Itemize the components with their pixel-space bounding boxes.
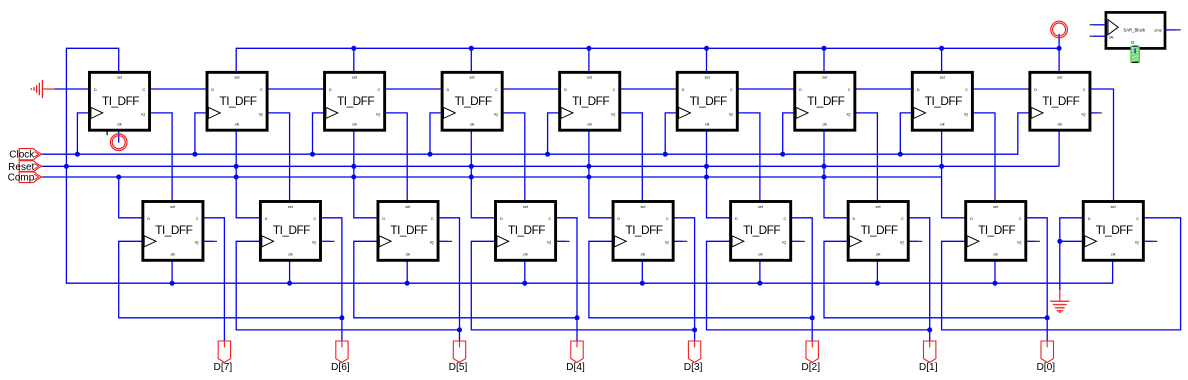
svg-text:C: C [784,217,787,221]
svg-text:IQ: IQ [1017,241,1021,245]
svg-text:IQ: IQ [547,241,551,245]
wire: U13 clk triangle track to D[3] net [471,241,694,330]
wire: U16 IQ stub [908,240,918,242]
wire: U10 C output to pin D[7] [203,218,225,341]
svg-text:C: C [495,88,498,92]
svg-text:D: D [1034,88,1037,92]
U1 TI_DFF flip-flop [89,72,149,130]
global net circle symbol at U1 clk-bar [110,134,127,151]
U3 TI_DFF flip-flop [325,72,385,130]
svg-text:TI_DFF: TI_DFF [572,94,609,108]
svg-text:C: C [901,217,904,221]
wire: U17 IQ stub [1026,240,1036,242]
svg-text:D: D [799,88,802,92]
pin-end tick U14 IQ [683,240,687,242]
svg-text:C: C [613,88,616,92]
svg-text:D: D [735,217,738,221]
svg-text:TI_DFF: TI_DFF [508,223,545,237]
wire: U12 clk-bar pin to reset bus [406,260,408,284]
svg-text:IQ: IQ [611,112,615,116]
wire: U13 clk-bar pin to reset bus [524,260,526,284]
wire: U5 clk triangle to Clock rail [548,113,559,154]
junction dots on Comp rail [116,175,826,180]
wire: U11 clk-bar pin to reset bus [289,260,291,284]
svg-text:clk: clk [993,252,998,256]
black tick marker near U1 clk [106,124,108,135]
svg-text:D: D [853,217,856,221]
wire: U8 set pin drop [941,48,943,72]
wire: Clock rail to U9 clk triangle [42,113,1029,154]
svg-text:TI_DFF: TI_DFF [337,94,374,108]
svg-text:D[1]: D[1] [919,362,938,373]
svg-text:clk: clk [587,122,592,126]
U12 TI_DFF flip-flop [378,202,438,261]
svg-text:IQ: IQ [430,241,434,245]
wire: U6 clk triangle to Clock rail [665,113,676,154]
svg-text:D: D [500,217,503,221]
wire: U8 C to U9 D [972,88,1029,90]
global net circle symbol above U9 set [1051,21,1068,38]
svg-text:C: C [965,88,968,92]
svg-text:clk: clk [523,252,528,256]
svg-text:D: D [447,88,450,92]
wire: U5 set pin drop [588,48,590,72]
output pin D[3] [684,341,703,373]
output pin D[2] [801,341,820,373]
svg-text:D: D [682,88,685,92]
svg-text:D[2]: D[2] [801,362,820,373]
wire: U5 clk-bar / Comp feed down to U14 D [589,130,612,218]
U11 TI_DFF flip-flop [260,202,320,261]
U16 TI_DFF flip-flop [848,202,908,261]
wire: U1 IQ down to U10 set [149,113,172,201]
svg-text:TI_DFF: TI_DFF [978,223,1015,237]
svg-text:D[6]: D[6] [331,362,350,373]
wire: U7 clk triangle to Clock rail [783,113,794,154]
wire: U1 clk-bar pin into global circle symbol [118,130,120,142]
wire: U9 set pin drop [1058,48,1060,72]
svg-text:TI_DFF: TI_DFF [155,223,192,237]
wire: U18 IQ stub [1143,240,1153,242]
wire: U2 clk-bar / Comp feed down to U11 D [236,130,259,218]
svg-text:clk: clk [822,122,827,126]
wire: SAR_Block clk-in stub upper [1093,24,1106,26]
SAR_Block D bus stub (wide green wire) [1131,46,1139,63]
svg-text:TI_DFF: TI_DFF [743,223,780,237]
svg-text:clk: clk [117,122,122,126]
svg-text:C: C [666,217,669,221]
wire: U14 IQ stub [673,240,683,242]
input pin Reset [8,161,42,173]
wire: U13 C output to pin D[4] [555,218,577,341]
wire: gnd symbol to U1 D input [54,88,88,90]
wire: U11 C output to pin D[6] [320,218,342,341]
svg-text:TI_DFF: TI_DFF [690,94,727,108]
wire: U15 C output to pin D[2] [790,218,812,341]
svg-text:D: D [617,217,620,221]
pin-end tick U12 IQ [448,240,452,242]
U10 TI_DFF flip-flop [143,202,203,261]
wire: U12 C output to pin D[5] [438,218,460,341]
svg-text:IQ: IQ [259,112,263,116]
wire: U12 IQ stub [438,240,448,242]
wire: U9 C down to U18 set [1090,89,1114,201]
junction dots on clk track taps [339,315,1049,332]
svg-text:C: C [313,217,316,221]
output pin D[6] [331,341,350,373]
svg-text:D[5]: D[5] [449,362,468,373]
svg-text:D[4]: D[4] [566,362,585,373]
svg-text:C: C [431,217,434,221]
input pin Comp [8,171,42,183]
svg-text:clk: clk [1109,35,1114,40]
svg-text:TI_DFF: TI_DFF [102,94,139,108]
U6 TI_DFF flip-flop [677,72,737,130]
svg-text:clk: clk [406,252,411,256]
svg-text:D: D [265,217,268,221]
junction dots on bottom reset bus [170,281,998,286]
svg-text:clk: clk [758,252,763,256]
svg-text:C: C [548,217,551,221]
wire: U11 clk triangle track to D[5] net [236,241,459,330]
svg-text:D: D [94,88,97,92]
svg-text:D: D [211,88,214,92]
svg-text:clk: clk [470,122,475,126]
wire: U6 IQ down to U15 set [737,113,760,201]
wire: U1 clk triangle to Clock rail [77,113,88,154]
ground symbol (bottom right, U18 clk net) [1050,290,1069,312]
wire: U6 clk-bar / Comp feed down to U15 D [707,130,730,218]
svg-text:C: C [848,88,851,92]
wire: U4 clk-bar / Comp feed down to U13 D [471,130,494,218]
U15 TI_DFF flip-flop [731,202,791,261]
svg-text:D: D [1088,217,1091,221]
svg-text:clk: clk [940,122,945,126]
svg-text:TI_DFF: TI_DFF [273,223,310,237]
wire: Comp rail [42,176,942,178]
svg-text:C: C [730,88,733,92]
wire: U16 C output to pin D[1] [908,218,930,341]
wire: U2 IQ down to U11 set [267,113,290,201]
svg-text:TI_DFF: TI_DFF [220,94,257,108]
junction dots on Clock rail [75,152,903,157]
U5 TI_DFF flip-flop [560,72,620,130]
output pin D[1] [919,341,938,373]
U14 TI_DFF flip-flop [613,202,673,261]
svg-text:IQ: IQ [782,241,786,245]
U2 TI_DFF flip-flop [207,72,267,130]
svg-text:C: C [142,88,145,92]
svg-text:TI_DFF: TI_DFF [925,94,962,108]
wire: U2 C to U3 D [267,88,324,90]
wire: U6 set pin drop [706,48,708,72]
wire: U11 IQ stub [320,240,330,242]
junction dots on Reset rail [64,164,944,169]
wire: U10 IQ stub [203,240,213,242]
output pin D[5] [449,341,468,373]
svg-text:clk: clk [641,252,646,256]
svg-text:IQ: IQ [376,112,380,116]
svg-text:D[3]: D[3] [684,362,703,373]
svg-text:IQ: IQ [665,241,669,245]
wire: U1 C to U2 D [149,88,206,90]
wire: U5 IQ down to U14 set [619,113,642,201]
wire: U4 IQ down to U13 set [502,113,525,201]
ground symbol (signal ground, left, at U1 D input) [30,80,54,98]
pin tick [1090,24,1093,26]
U9 TI_DFF flip-flop [1030,72,1090,130]
wire: U2 clk triangle to Clock rail [195,113,206,154]
wire: U14 clk-bar pin to reset bus [641,260,643,284]
svg-text:D: D [1131,40,1134,45]
svg-text:clk: clk [705,122,710,126]
svg-text:clk: clk [1057,122,1062,126]
pin-end tick U9 IQ [1098,112,1102,114]
wire: U16 clk triangle track to D[0] net [824,241,1047,317]
svg-text:IQ: IQ [1081,112,1085,116]
U4 TI_DFF flip-flop [442,72,502,130]
svg-text:SAR_Block: SAR_Block [1123,28,1146,33]
wire: U17 C output to pin D[0] [1026,218,1048,341]
svg-text:C: C [260,88,263,92]
wire: U8 clk-bar / Comp feed down to U17 D [942,130,965,218]
svg-text:D: D [970,217,973,221]
wire: U3 clk triangle to Clock rail [313,113,324,154]
svg-text:TI_DFF: TI_DFF [390,223,427,237]
svg-text:D[7]: D[7] [214,362,233,373]
svg-text:IQ: IQ [900,241,904,245]
svg-text:cmp: cmp [1154,28,1162,33]
pin-end tick U10 IQ [213,240,217,242]
svg-text:clk: clk [288,252,293,256]
output pin D[0] [1036,341,1055,373]
pin-end tick U15 IQ [801,240,805,242]
wire: U13 IQ stub [555,240,565,242]
svg-text:D: D [564,88,567,92]
wire: U18 D to ground [1060,218,1082,290]
svg-text:D: D [147,217,150,221]
svg-text:clk: clk [876,252,881,256]
wire: U7 IQ down to U16 set [855,113,878,201]
svg-text:TI_DFF: TI_DFF [626,223,663,237]
svg-text:TI_DFF: TI_DFF [455,94,492,108]
U7 TI_DFF flip-flop [795,72,855,130]
wire: U3 clk-bar / Comp feed down to U12 D [354,130,377,218]
pin-end tick U13 IQ [566,240,570,242]
svg-text:clk: clk [1111,252,1116,256]
wire: U7 C to U8 D [855,88,912,90]
wire: U15 clk triangle track to D[1] net [707,241,930,330]
pin-end tick U16 IQ [918,240,922,242]
svg-text:IQ: IQ [1135,241,1139,245]
pin tick [1090,35,1093,37]
U8 TI_DFF flip-flop [912,72,972,130]
wire: U12 clk triangle track to D[4] net [354,241,577,317]
wire: U1 set up-over-down to Reset net and bottom reset bus [66,48,1112,283]
wire: Reset rail [42,165,1059,167]
wire: set rail U2..U9 with riser to global symbol [236,34,1059,72]
junction dot ground net [1057,239,1062,244]
wire: U18 clk triangle to ground net [1060,240,1082,242]
svg-text:D: D [917,88,920,92]
svg-text:TI_DFF: TI_DFF [807,94,844,108]
pin-end tick U11 IQ [331,240,335,242]
svg-text:IQ: IQ [964,112,968,116]
wire: U8 IQ down to U17 set [972,113,995,201]
wire: U8 clk triangle to Clock rail [900,113,911,154]
U17 TI_DFF flip-flop [966,202,1026,261]
svg-text:IQ: IQ [494,112,498,116]
wire: Comp rail down to U10 D input [119,177,142,218]
svg-text:D: D [329,88,332,92]
svg-text:IQ: IQ [729,112,733,116]
svg-text:IQ: IQ [312,241,316,245]
svg-text:clk: clk [352,122,357,126]
wire: U4 set pin drop [470,48,472,72]
wire: U15 clk-bar pin to reset bus [759,260,761,284]
input pin Clock [9,149,41,161]
wire: U7 set pin drop [823,48,825,72]
svg-text:C: C [1019,217,1022,221]
wire: U3 C to U4 D [384,88,441,90]
wire: U14 C output to pin D[3] [673,218,695,341]
wire: U9 IQ stub [1090,112,1098,114]
svg-text:TI_DFF: TI_DFF [1096,223,1133,237]
wire: U6 C to U7 D [737,88,794,90]
wire: U4 C to U5 D [502,88,559,90]
wire: U3 set pin drop [353,48,355,72]
pin-end tick U17 IQ [1036,240,1040,242]
SAR_Block U19 [1106,12,1165,48]
svg-text:D[0]: D[0] [1036,362,1055,373]
svg-text:Clock: Clock [9,150,35,161]
svg-text:clk: clk [235,122,240,126]
svg-text:IQ: IQ [141,112,145,116]
output pin D[4] [566,341,585,373]
wire: U14 clk triangle track to D[2] net [589,241,812,317]
wire: U5 C to U6 D [619,88,676,90]
wire: U17 clk-bar pin to reset bus [994,260,996,284]
wire: U3 IQ down to U12 set [384,113,407,201]
junction dots on set rail [351,46,1061,51]
wire: U10 clk-bar pin to reset bus [171,260,173,284]
U18 TI_DFF flip-flop [1083,202,1143,261]
wire: U4 clk triangle to Clock rail [430,113,441,154]
wire: U9 clk-bar pin down to Reset rail end [1058,130,1060,166]
svg-text:C: C [1083,88,1086,92]
svg-text:TI_DFF: TI_DFF [1042,94,1079,108]
svg-text:C: C [377,88,380,92]
output pin D[7] [214,341,233,373]
svg-text:C: C [1136,217,1139,221]
pin tick [1177,29,1181,31]
wire: U7 clk-bar / Comp feed down to U16 D [824,130,847,218]
wire: U15 IQ stub [790,240,800,242]
wire: U10 clk triangle track to D[6] net [119,241,342,317]
wire: SAR_Block cmp output stub [1165,29,1177,31]
svg-text:IQ: IQ [846,112,850,116]
svg-text:TI_DFF: TI_DFF [861,223,898,237]
wire: U17 clk triangle loop to U18 C output [942,218,1181,330]
pin-end tick U18 IQ [1153,240,1157,242]
U13 TI_DFF flip-flop [496,202,556,261]
svg-text:IQ: IQ [195,241,199,245]
svg-text:Comp: Comp [8,173,35,184]
svg-text:clk: clk [170,252,175,256]
svg-text:C: C [196,217,199,221]
svg-text:D: D [382,217,385,221]
wire: U16 clk-bar pin to reset bus [876,260,878,284]
wire: SAR_Block clk stub lower [1093,35,1106,37]
